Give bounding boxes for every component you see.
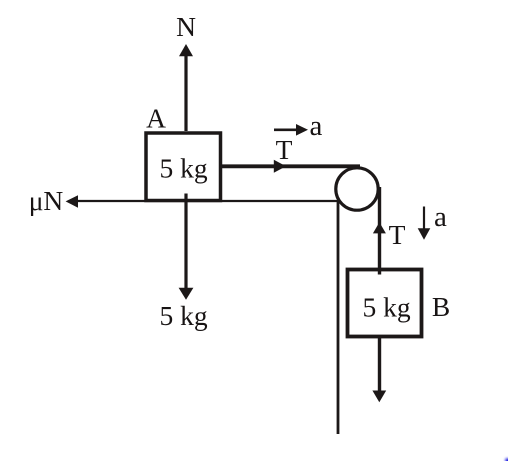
svg-text:B: B <box>432 291 450 322</box>
svg-text:N: N <box>176 11 196 42</box>
svg-text:5 kg: 5 kg <box>362 292 410 323</box>
svg-text:T: T <box>276 134 293 165</box>
svg-text:a: a <box>434 201 447 233</box>
svg-text:a: a <box>310 110 323 142</box>
svg-text:T: T <box>389 219 406 250</box>
svg-text:μN: μN <box>29 185 64 216</box>
svg-text:5 kg: 5 kg <box>159 153 207 184</box>
svg-text:5 kg: 5 kg <box>159 300 207 331</box>
svg-text:A: A <box>146 103 166 134</box>
